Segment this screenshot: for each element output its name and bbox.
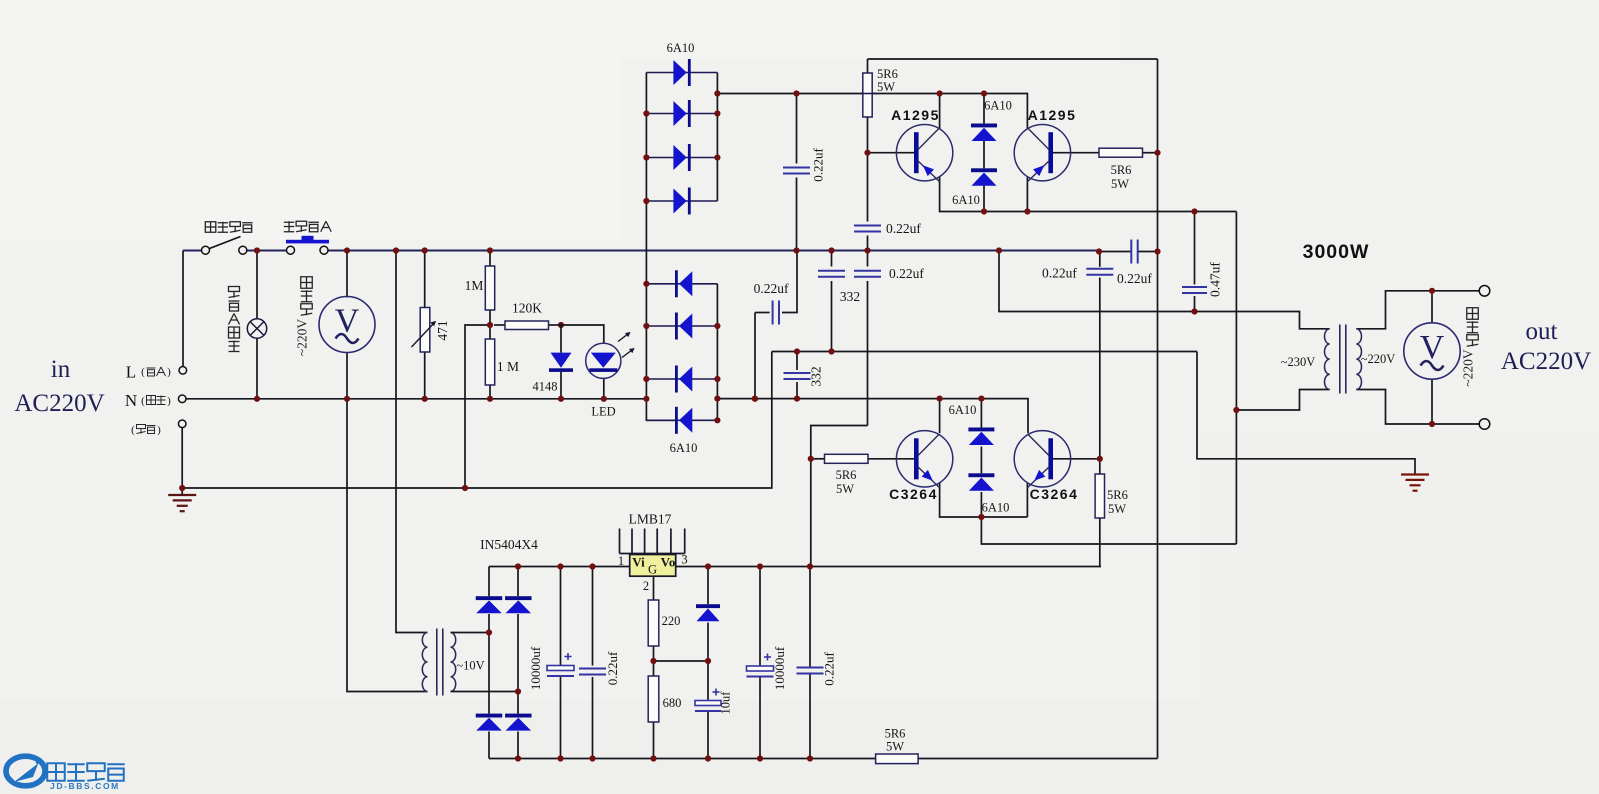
svg-text:~220V: ~220V xyxy=(1361,352,1396,366)
label 过流保护 xyxy=(284,221,295,232)
wire: L terminal drop xyxy=(182,251,184,367)
svg-text:5R6: 5R6 xyxy=(1111,163,1132,177)
wire: LM317 G leg + 220/680 chain xyxy=(653,576,655,600)
wire: C3264#2 5R6 to LM317 rail xyxy=(1099,459,1101,474)
transistor Q4 C3264 xyxy=(1014,431,1070,488)
junctions LM317 rail xyxy=(515,563,521,569)
junction C3264 emitter bus xyxy=(978,514,984,520)
bridge diode IN5404 top-right xyxy=(505,596,532,613)
watermark text 家电论坛 xyxy=(47,763,65,781)
svg-text:10uf: 10uf xyxy=(719,691,733,715)
resistor 5R6 5W #2 (A1295#2 emitter? horizontal) xyxy=(1099,148,1143,157)
wire: voltmeter branch + transformer primary bottom feed xyxy=(346,251,348,298)
wire: 10000uf#2 column xyxy=(759,567,761,667)
svg-text:0.22uf: 0.22uf xyxy=(811,148,826,182)
svg-text:1 M: 1 M xyxy=(497,359,519,374)
svg-text:680: 680 xyxy=(663,696,682,710)
junction 1M/120K node xyxy=(487,322,493,328)
svg-text:5W: 5W xyxy=(1108,502,1126,516)
svg-text:0.22uf: 0.22uf xyxy=(754,281,789,296)
wire: rectified output crossing 5R6#1 body xyxy=(860,93,876,95)
diode stack upper 6A10 row4 xyxy=(646,188,717,215)
svg-text:5R6: 5R6 xyxy=(877,67,898,81)
terminal L xyxy=(179,367,187,375)
wire: 5R6 feed from top bus xyxy=(867,59,869,73)
junctions on collector bus y=398.6 xyxy=(714,396,720,402)
terminal N xyxy=(178,395,186,403)
resistor 5R6 5W #4 (C3264#2 base) xyxy=(1095,474,1104,518)
wire: node 1M/120K left leg to ground bus xyxy=(465,325,490,488)
svg-text:AC220V: AC220V xyxy=(1501,348,1591,375)
lamp: power indicator 电源指示灯 xyxy=(247,319,266,338)
diode: LM317 protection diode xyxy=(696,604,720,621)
wire: main L bus y=250 (after fuse) xyxy=(328,250,1099,252)
svg-text:5R6: 5R6 xyxy=(836,468,857,482)
wire: rectified output y=93.5 xyxy=(717,94,1027,129)
wire: lower stack right rail xyxy=(716,284,718,421)
capacitor 332 #2 xyxy=(784,373,811,379)
svg-text:LMB17: LMB17 xyxy=(629,512,672,527)
junctions emitter bus y=211.5 xyxy=(981,208,987,214)
terminal earth xyxy=(178,420,186,488)
wire: ground bus y=488 xyxy=(182,352,772,489)
junction adj node xyxy=(650,658,656,664)
wire: 0.22uf cap1 column xyxy=(796,94,798,164)
junction 120K/4148 node xyxy=(558,322,564,328)
wire: 1M divider branch xyxy=(489,251,491,267)
bridge diode IN5404 bottom-left xyxy=(476,714,503,731)
svg-text:(: ( xyxy=(141,395,145,407)
svg-text:JD-BBS.COM: JD-BBS.COM xyxy=(50,781,120,791)
wire: 332#2 column xyxy=(796,352,798,371)
diode 6A10 pair upper (A1295 cell) xyxy=(971,124,997,142)
svg-text:AC220V: AC220V xyxy=(14,390,104,417)
transistor Q2 A1295 xyxy=(1014,125,1070,182)
svg-text:4148: 4148 xyxy=(533,380,558,394)
svg-text:(: ( xyxy=(131,424,135,436)
capacitor 0.22uf #3 (to C3264 base) xyxy=(854,271,881,277)
svg-text:1M: 1M xyxy=(465,278,484,293)
resistor 1M upper xyxy=(485,266,494,310)
svg-text:G: G xyxy=(648,563,657,577)
svg-text:5W: 5W xyxy=(886,740,904,754)
capacitor 0.22uf #5 series on bus xyxy=(1131,240,1137,264)
junction C3264 bases xyxy=(808,456,814,462)
label (地线) xyxy=(131,424,161,436)
wire: base wire A1295#1 xyxy=(868,152,917,154)
junctions on L bus xyxy=(254,247,260,253)
svg-text:6A10: 6A10 xyxy=(949,403,977,417)
svg-text:6A10: 6A10 xyxy=(670,441,698,455)
resistor 220 xyxy=(648,600,659,646)
svg-text:5R6: 5R6 xyxy=(1107,488,1128,502)
wire: input transformer secondary leads xyxy=(453,632,489,634)
svg-text:0.22uf: 0.22uf xyxy=(886,221,921,236)
transistor Q3 C3264 xyxy=(896,431,952,488)
wire: secondary top to out xyxy=(1356,291,1484,329)
svg-text:220: 220 xyxy=(662,614,681,628)
svg-text:6A10: 6A10 xyxy=(952,193,980,207)
wire: cap3 column below bus xyxy=(867,251,869,267)
transformer T2 output xyxy=(1324,325,1361,394)
junctions DC- rail xyxy=(515,755,521,761)
wire: C3264#1 base resistor row xyxy=(811,458,825,460)
svg-text:10000uf: 10000uf xyxy=(772,646,787,690)
wire: top bus y=59 xyxy=(868,58,1158,60)
diode stack lower 6A10 row1 xyxy=(646,270,717,297)
wire: 0.22uf bottom#1 column xyxy=(592,567,594,666)
svg-text:0.22uf: 0.22uf xyxy=(1042,266,1077,281)
wire: cap4 horizontal link xyxy=(755,312,770,314)
wire: 6A10 pair column (C3264) xyxy=(980,399,982,428)
wire: main L bus y=250 (segment to switch) xyxy=(183,250,202,252)
svg-text:5W: 5W xyxy=(836,482,854,496)
svg-text:332: 332 xyxy=(840,289,860,304)
capacitor 0.22uf #6 (C3264 base to bus) xyxy=(1086,269,1113,275)
svg-text:0.22uf: 0.22uf xyxy=(889,266,924,281)
svg-text:0.47uf: 0.47uf xyxy=(1208,262,1223,297)
wire: main L bus y=250 (switch to fuse) xyxy=(247,250,287,252)
switch: power switch 电源开关 xyxy=(202,237,247,255)
bridge diode IN5404 bottom-right xyxy=(505,714,532,731)
voltmeter: input ~220V meter xyxy=(319,297,375,353)
wire: C3264#2 base node column xyxy=(1099,251,1101,267)
junction A1295#1 base node xyxy=(864,150,870,156)
wire: A1295 emitter bus y=211.5 xyxy=(940,177,1237,212)
bridge diode IN5404 top-left xyxy=(476,596,503,613)
svg-text:10000uf: 10000uf xyxy=(528,646,543,690)
ground: output side xyxy=(1401,475,1429,491)
diode stack lower 6A10 row2 xyxy=(646,313,717,340)
svg-text:IN5404X4: IN5404X4 xyxy=(480,537,538,552)
svg-text:L: L xyxy=(126,363,136,382)
wire: 10000uf#1 column xyxy=(560,567,562,666)
wire: node column to transformer bottom x=1236 xyxy=(1235,212,1237,545)
wire: lamp branch xyxy=(256,251,258,320)
wire: A1295#1 base node column xyxy=(867,117,869,222)
svg-text:6A10: 6A10 xyxy=(982,501,1010,515)
diode 6A10 pair upper (C3264 cell) xyxy=(968,428,994,446)
svg-text:120K: 120K xyxy=(512,301,542,316)
svg-text:3: 3 xyxy=(681,553,687,567)
svg-text:A1295: A1295 xyxy=(1028,107,1077,123)
watermark logo JD-BBS xyxy=(6,756,45,786)
wire: series cap links on bus xyxy=(1099,251,1131,253)
wire: varistor branch xyxy=(424,251,426,308)
svg-text:6A10: 6A10 xyxy=(984,99,1012,113)
wire: C3264 emitter bus y=517 xyxy=(940,483,1028,517)
resistor 5R6 5W #3 (C3264#1 base) xyxy=(825,454,869,463)
wire: adj node y=661 xyxy=(654,660,709,662)
wire: N bus y=399 (left) xyxy=(186,398,646,400)
junctions rectified output wire xyxy=(793,90,799,96)
svg-text:out: out xyxy=(1526,318,1558,345)
label 电源指示灯 (vertical) xyxy=(229,287,240,298)
junctions output meter xyxy=(1429,288,1435,294)
wire: bus tap down to primary top y=311.5 xyxy=(999,251,1330,329)
svg-text:6A10: 6A10 xyxy=(667,41,695,55)
capacitor 0.22uf #4 (horizontal) xyxy=(773,301,779,325)
svg-text:): ) xyxy=(157,424,161,436)
diode stack lower 6A10 row4 xyxy=(646,407,717,434)
junctions cap4 xyxy=(752,396,758,402)
resistor 120K xyxy=(505,321,549,330)
wire: 4148 leads xyxy=(560,325,562,353)
svg-text:3000W: 3000W xyxy=(1303,241,1370,263)
junction bus tap 0.47uf bottom xyxy=(1191,308,1197,314)
wire: upper stack right rail xyxy=(716,73,718,202)
diode 4148 xyxy=(549,353,573,372)
svg-text:~220V: ~220V xyxy=(1461,349,1476,387)
resistor 1M lower xyxy=(485,339,494,385)
svg-text:): ) xyxy=(167,395,171,407)
svg-text:(: ( xyxy=(141,366,145,378)
wire: LM317 DC+ rail y=566.5 xyxy=(489,566,630,568)
wire: transformer primary bottom xyxy=(1236,390,1329,411)
svg-text:A1295: A1295 xyxy=(891,107,940,123)
capacitor 0.22uf bottom#2 xyxy=(797,668,824,674)
label 电源开关 xyxy=(205,222,216,233)
wire: 120K row y=325 xyxy=(494,324,505,326)
diode 6A10 pair lower (C3264 cell) xyxy=(968,473,994,491)
capacitor 10000uf #2 xyxy=(747,654,774,677)
regulator U1 LMB17 heatsink pins xyxy=(620,529,685,554)
wire: C3264#2 base wire xyxy=(1052,458,1100,460)
svg-text:1: 1 xyxy=(618,554,624,568)
wire: DC- rail y=758.5 xyxy=(489,758,1158,760)
wire: N bus jog to lower stack row4 xyxy=(646,399,675,421)
capacitor 0.47uf xyxy=(1182,287,1207,293)
node: 332 bus corner down to output ground link xyxy=(1197,352,1415,475)
wire: 332/ground node bus y=351.5 xyxy=(772,351,1197,353)
wire: 6A10 pair column (A1295) xyxy=(983,94,985,124)
voltmeter: output ~220V meter xyxy=(1404,323,1460,379)
wire: LED bottom lead xyxy=(603,379,605,399)
ground: input side xyxy=(168,488,196,511)
LED D1 xyxy=(586,332,635,378)
wire: emitter node link to transformer bottom xyxy=(981,517,1236,544)
svg-text:471: 471 xyxy=(435,320,450,340)
wire: transformer primary top feed from L bus xyxy=(396,251,425,633)
svg-text:5R6: 5R6 xyxy=(885,727,906,741)
svg-text:~10V: ~10V xyxy=(456,659,484,673)
wire: out voltmeter column xyxy=(1431,291,1433,323)
svg-text:5W: 5W xyxy=(1111,177,1129,191)
transistor Q1 A1295 xyxy=(896,125,952,182)
wire: collector bus y=398.6 (C3264 pair top) xyxy=(717,399,1028,433)
junctions bridge AC nodes xyxy=(486,629,492,635)
wire: 0.47uf column xyxy=(1194,212,1196,285)
wire: A1295#1 collector xyxy=(939,94,941,129)
junctions 332 bus y=351.5 xyxy=(794,348,800,354)
terminal: output bottom xyxy=(1479,419,1490,430)
capacitor 0.22uf bottom#1 xyxy=(579,669,606,675)
wire: bridge rail x=518 xyxy=(517,567,519,597)
capacitor 0.22uf #1 (x=796) xyxy=(783,168,810,174)
svg-text:~230V: ~230V xyxy=(1281,355,1316,369)
wire: 10uf column xyxy=(707,661,709,701)
wire: A1295#2 base to 5R6 to rail xyxy=(1051,152,1099,154)
svg-text:Vi: Vi xyxy=(632,555,645,570)
diode stack upper 6A10 row2 xyxy=(646,100,717,127)
capacitor 332 #1 xyxy=(818,271,845,277)
transformer T1 input (~10V) xyxy=(422,629,455,696)
wire: protection diode column x=708 xyxy=(707,567,709,605)
junction transformer bottom link xyxy=(1233,407,1239,413)
label N(零线) xyxy=(125,391,171,410)
svg-text:LED: LED xyxy=(591,405,615,419)
fuse: overcurrent protector 过流保护 xyxy=(286,236,329,254)
terminal: output top xyxy=(1479,286,1490,297)
wire: 0.22uf bottom#2 column xyxy=(809,567,811,668)
junctions diode stacks xyxy=(643,110,649,116)
svg-text:N: N xyxy=(125,391,137,410)
svg-text:C3264: C3264 xyxy=(889,486,938,502)
resistor 5R6 5W bottom xyxy=(876,754,919,764)
capacitor 10000uf #1 xyxy=(547,653,574,676)
junction A1295#2 5R6-rail xyxy=(1154,150,1160,156)
wire: jog to C3264#1 base node xyxy=(811,426,868,567)
wire: bridge rail x=489 xyxy=(488,567,490,597)
svg-text:0.22uf: 0.22uf xyxy=(1117,271,1152,286)
wire: C3264 collector drop #1 xyxy=(939,399,941,433)
diode stack upper 6A10 row3 xyxy=(646,144,717,171)
diode stack lower 6A10 row3 xyxy=(646,366,717,393)
svg-text:0.22uf: 0.22uf xyxy=(822,652,837,686)
wire: secondary bottom to out xyxy=(1356,390,1484,425)
wire: 332#1 column xyxy=(831,251,833,267)
svg-text:5W: 5W xyxy=(877,80,895,94)
resistor 680 xyxy=(648,676,659,722)
diode stack upper 6A10 row1 xyxy=(646,59,717,86)
svg-text:): ) xyxy=(167,366,171,378)
diode 6A10 pair lower (A1295 cell) xyxy=(971,168,997,186)
wire: right rail x=1157.5 xyxy=(1157,59,1159,759)
svg-text:Vo: Vo xyxy=(661,555,676,570)
svg-text:C3264: C3264 xyxy=(1030,486,1079,502)
svg-text:in: in xyxy=(51,356,71,383)
svg-text:0.22uf: 0.22uf xyxy=(605,651,620,685)
svg-text:332: 332 xyxy=(809,366,824,386)
svg-text:V: V xyxy=(1420,329,1445,366)
capacitor 10uf xyxy=(695,689,721,712)
wire: A1295#2 emitter drop xyxy=(1026,177,1028,212)
resistor 5R6 5W #1 (A1295 feed) xyxy=(863,73,872,117)
junctions ground bus xyxy=(179,485,185,491)
junctions on N bus xyxy=(254,396,260,402)
wire: lower stack left rail xyxy=(645,73,647,399)
varistor RV1 471 xyxy=(412,308,436,353)
svg-text:~220V: ~220V xyxy=(295,319,310,357)
label L(火线) xyxy=(126,363,171,382)
regulator U1 LMB17 body xyxy=(630,555,676,577)
capacitor 0.22uf #2 (A1295 base) xyxy=(854,226,881,232)
svg-text:2: 2 xyxy=(643,579,649,593)
